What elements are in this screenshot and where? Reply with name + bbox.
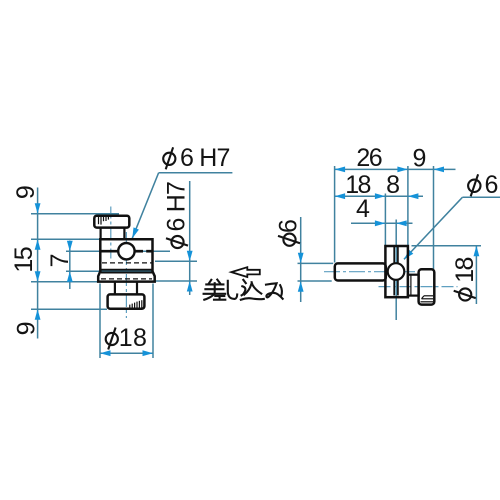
svg-text:6 H7: 6 H7 bbox=[163, 182, 191, 232]
svg-text:6: 6 bbox=[275, 220, 303, 233]
svg-text:9: 9 bbox=[12, 186, 40, 199]
svg-text:18: 18 bbox=[451, 257, 479, 282]
svg-text:26: 26 bbox=[356, 144, 381, 172]
svg-text:7: 7 bbox=[46, 254, 74, 267]
svg-text:9: 9 bbox=[413, 144, 426, 172]
svg-text:9: 9 bbox=[13, 322, 41, 335]
svg-text:15: 15 bbox=[10, 247, 38, 272]
svg-text:6 H7: 6 H7 bbox=[180, 144, 230, 172]
svg-text:8: 8 bbox=[386, 171, 399, 199]
svg-text:6: 6 bbox=[485, 171, 498, 199]
svg-text:18: 18 bbox=[119, 324, 148, 352]
svg-text:4: 4 bbox=[356, 195, 370, 223]
